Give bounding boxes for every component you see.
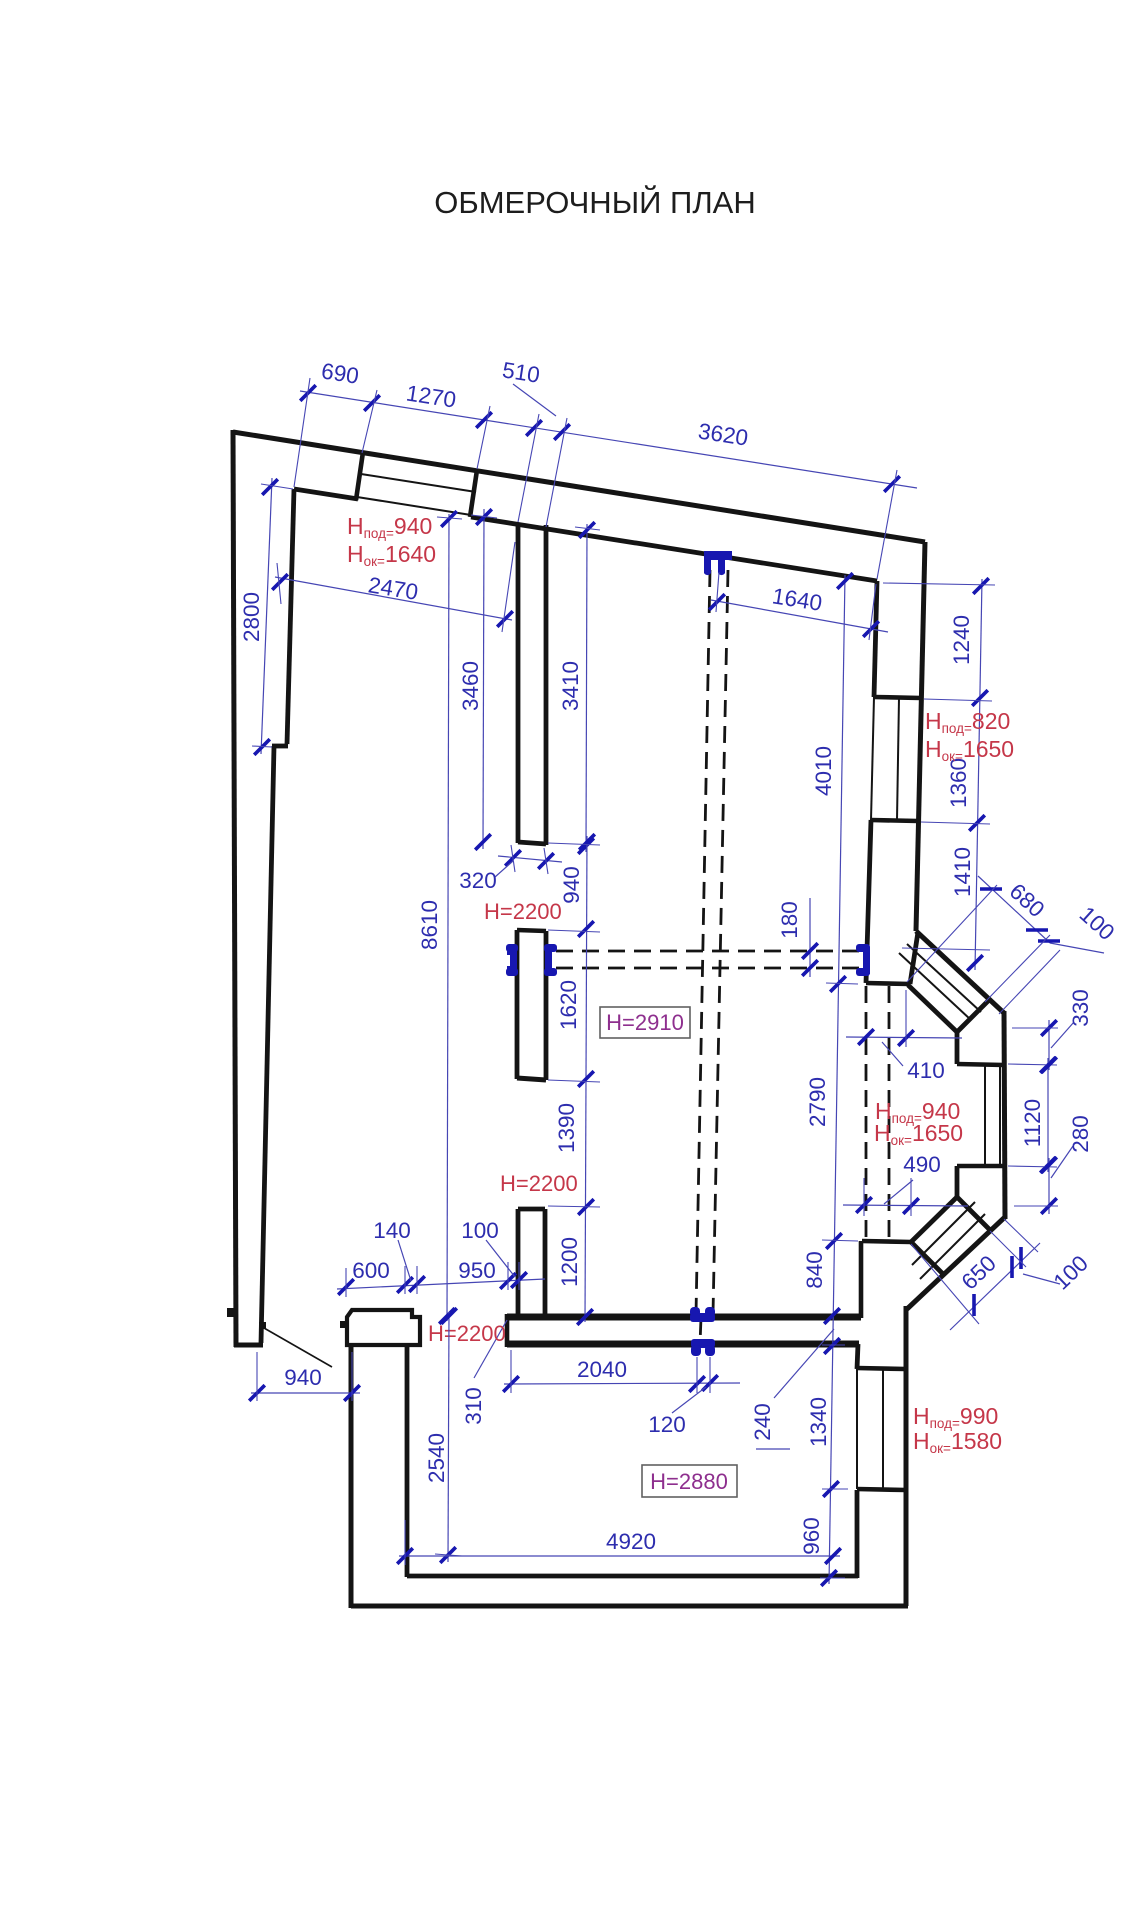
door hinge right [340, 1321, 347, 1328]
label H=2910 box [600, 1007, 690, 1038]
svg-text:320: 320 [459, 868, 497, 893]
window W1 left jamb [356, 452, 363, 500]
wall right inner lower [866, 820, 871, 983]
dashed gap segment [700, 1318, 701, 1344]
marker door B right [544, 944, 557, 952]
wall main-room bottom left step [505, 1314, 510, 1347]
wall bay end cap lower [862, 1241, 911, 1242]
window W5 upper jamb [957, 1197, 990, 1230]
door hinge left [259, 1322, 266, 1329]
window W2 inner line [871, 697, 874, 820]
dim line 680/100 [978, 876, 1050, 943]
marker beam bottom on main wall [690, 1307, 700, 1317]
wall stub-1200 left [516, 1209, 521, 1316]
partition B bottom cap [517, 1078, 546, 1080]
svg-text:Нок=1650: Нок=1650 [874, 1120, 963, 1148]
leader 510 [513, 384, 556, 416]
window W3 glazing 1 [907, 944, 981, 1012]
svg-text:4920: 4920 [606, 1529, 656, 1554]
svg-text:2800: 2800 [239, 592, 264, 642]
dashed bay line v4 [888, 986, 891, 1240]
svg-text:840: 840 [802, 1251, 827, 1289]
svg-text:310: 310 [461, 1387, 486, 1425]
marker dashed-h end [856, 944, 870, 952]
svg-text:1240: 1240 [949, 615, 974, 665]
dim line 3460 [483, 509, 484, 849]
wall bottom-room right inner upper [857, 1344, 858, 1369]
svg-text:8610: 8610 [417, 900, 442, 950]
partition A right [544, 525, 549, 845]
window W3 glazing 2 [899, 953, 971, 1020]
window W6 top jamb [857, 1368, 906, 1369]
wall main-room right stub [859, 1241, 864, 1318]
partition A cap [518, 842, 546, 844]
window W1 right jamb [470, 470, 477, 517]
leader 320 [495, 861, 513, 877]
window W4 glazing 1 [984, 1065, 986, 1165]
dim line 410 [846, 1037, 962, 1038]
wall bay end cap upper [866, 983, 910, 984]
wall bottom-room right inner lower [855, 1490, 860, 1578]
dim line 8610 [447, 514, 449, 1321]
svg-text:950: 950 [458, 1258, 496, 1283]
leader 100 left [486, 1240, 515, 1277]
leader 140 [398, 1240, 411, 1281]
bay lower diagonal inner [911, 1197, 957, 1242]
dim line 490 [843, 1205, 968, 1206]
wall bottom-room bottom inner [407, 1574, 858, 1579]
svg-text:1390: 1390 [554, 1103, 579, 1153]
dim line 1120 [1047, 1058, 1049, 1172]
window W1 inner line [357, 497, 471, 515]
svg-text:3410: 3410 [558, 661, 583, 711]
leader 330 [1051, 1022, 1074, 1048]
svg-text:960: 960 [799, 1517, 824, 1555]
svg-text:940: 940 [284, 1365, 322, 1390]
window W5 glazing 1 [920, 1214, 985, 1279]
svg-text:3460: 3460 [458, 661, 483, 711]
dim line 330 [1048, 1020, 1050, 1070]
window W4 glazing 2 [999, 1065, 1001, 1165]
window W2 bottom jamb [871, 820, 918, 821]
wall left outer [233, 430, 236, 1347]
svg-text:140: 140 [373, 1218, 411, 1243]
window W6 inner line [856, 1369, 858, 1489]
dim line 4920 [399, 1555, 840, 1557]
wall left inner upper [287, 489, 294, 744]
svg-text:330: 330 [1068, 989, 1093, 1027]
door swing leaf [264, 1328, 332, 1367]
svg-text:490: 490 [903, 1152, 941, 1177]
svg-text:4010: 4010 [811, 746, 836, 796]
wall bottom-room right outer [904, 1306, 909, 1606]
svg-text:280: 280 [1068, 1115, 1093, 1153]
svg-text:120: 120 [648, 1412, 686, 1437]
dim line 1240/1360/1410 [975, 579, 982, 970]
dashed beam line v1 [696, 570, 710, 1314]
wall top outer [233, 432, 925, 542]
svg-text:1120: 1120 [1020, 1099, 1045, 1147]
wall right inner upper [874, 581, 877, 697]
wall stub-1200 cap [518, 1207, 545, 1212]
svg-text:H=2910: H=2910 [606, 1010, 684, 1035]
label H=2880 box [642, 1465, 737, 1497]
svg-text:2040: 2040 [577, 1357, 627, 1382]
svg-text:410: 410 [907, 1058, 945, 1083]
svg-text:1200: 1200 [557, 1237, 582, 1287]
wall top inner left of window [294, 489, 358, 499]
marker door B left [507, 947, 517, 974]
bay upper diagonal outer [916, 931, 1004, 1013]
window W5 lower jamb [911, 1242, 943, 1274]
svg-text:H=2200: H=2200 [428, 1321, 506, 1346]
dim line right chain [829, 575, 845, 1584]
dim line 2800 [261, 478, 272, 754]
svg-text:180: 180 [777, 901, 802, 939]
window W4 bottom jamb [957, 1164, 1004, 1169]
window W1 glazing [361, 474, 476, 492]
dim line 1640 [711, 600, 888, 632]
leader 100 upper [1050, 943, 1104, 953]
wall top inner right of window [471, 517, 877, 581]
partition B top cap [517, 930, 546, 931]
partition B right [544, 931, 549, 1080]
marker beam top [704, 551, 732, 575]
dashed bay line v3 [865, 986, 868, 1240]
svg-text:1360: 1360 [946, 758, 971, 808]
svg-text:1340: 1340 [806, 1397, 831, 1447]
wall right outer [916, 542, 925, 931]
dim line 600/140/950/100 [337, 1279, 545, 1289]
dim line top chain [300, 391, 917, 488]
dashed opening line h2 [556, 967, 864, 970]
dim line 650/100 [950, 1243, 1040, 1330]
dim line 280 [1048, 1158, 1050, 1214]
dashed opening line h1 [556, 950, 864, 953]
window W3 lower jamb [957, 1000, 989, 1032]
leader 120 [672, 1387, 706, 1413]
window W1 outer line [362, 453, 477, 471]
wall bottom-room top [507, 1341, 859, 1348]
leader 240 [774, 1329, 834, 1398]
svg-text:940: 940 [559, 866, 584, 904]
marker beam bottom on room wall [691, 1339, 715, 1348]
bay lower diagonal outer [907, 1217, 1005, 1309]
dim line 940 door [251, 1392, 360, 1394]
svg-text:ОБМЕРОЧНЫЙ ПЛАН: ОБМЕРОЧНЫЙ ПЛАН [434, 184, 755, 220]
svg-text:H=2200: H=2200 [484, 899, 562, 924]
window W2 top jamb [874, 697, 921, 698]
bay upper diagonal inner [908, 985, 957, 1032]
wall bottom-room left outer [349, 1345, 354, 1608]
leader 310 [474, 1320, 507, 1378]
svg-text:1410: 1410 [950, 847, 975, 897]
svg-text:1620: 1620 [556, 980, 581, 1030]
dashed beam line v2 [713, 570, 728, 1314]
svg-text:240: 240 [750, 1403, 775, 1441]
dim line 3410 [586, 524, 587, 852]
svg-text:600: 600 [352, 1258, 390, 1283]
window W4 top jamb [957, 1064, 1004, 1065]
leader 100 lower [1023, 1274, 1060, 1284]
window W5 glazing 2 [912, 1202, 975, 1265]
wall left bottom cap [234, 1343, 263, 1348]
svg-text:2540: 2540 [424, 1433, 449, 1483]
svg-text:2790: 2790 [805, 1077, 830, 1127]
dim line 320 [498, 856, 562, 862]
wall entrance stub [347, 1310, 420, 1345]
dim line 940/1620/1390/1200 [585, 836, 587, 1322]
bay front inner lower [955, 1166, 960, 1197]
svg-text:H=2880: H=2880 [650, 1469, 728, 1494]
wall main-room bottom [507, 1314, 861, 1321]
dim line 2470 [275, 577, 512, 620]
wall stub-1200 right [543, 1209, 548, 1316]
leader 280 [1051, 1146, 1073, 1178]
window W6 glazing [882, 1369, 884, 1489]
wall left inner step [272, 744, 288, 749]
svg-text:Нок=1580: Нок=1580 [913, 1428, 1002, 1456]
dim line 2540 [448, 1312, 449, 1562]
partition A left [516, 523, 521, 843]
svg-text:100: 100 [461, 1218, 499, 1243]
svg-text:Нок=1640: Нок=1640 [347, 541, 436, 569]
wall left inner lower [261, 746, 274, 1343]
wall bottom-room bottom outer [351, 1604, 908, 1609]
window W3 upper jamb [910, 932, 918, 984]
svg-text:H=2200: H=2200 [500, 1171, 578, 1196]
window W2 glazing [897, 698, 899, 820]
leader 410 [882, 1042, 903, 1066]
partition B left [515, 930, 520, 1079]
dim line 2040/120 [504, 1383, 740, 1384]
bay front inner upper [955, 1032, 960, 1064]
window W6 bottom jamb [857, 1489, 906, 1490]
wall bump left outer [227, 1308, 235, 1317]
dim line 180 [809, 898, 811, 977]
svg-text:Нок=1650: Нок=1650 [925, 736, 1014, 764]
leader 490 [884, 1180, 913, 1204]
wall bottom-room left inner [405, 1345, 410, 1577]
bay front outer [1004, 1011, 1005, 1219]
